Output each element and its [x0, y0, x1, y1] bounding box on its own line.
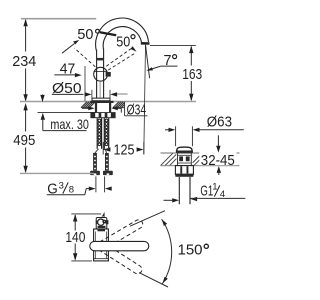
dimension 125 [102, 142, 104, 155]
dimension 163 [190, 47, 192, 66]
svg-text:163: 163 [182, 66, 202, 83]
svg-text:Ø34: Ø34 [127, 102, 147, 119]
cartridge ball joint [94, 67, 108, 81]
dashed lever position right [106, 49, 131, 66]
lever flag marker [102, 213, 105, 217]
150 degree arc [162, 219, 172, 284]
valve lock nut [175, 166, 193, 175]
G 3/8 thread label [95, 176, 97, 192]
mounting nut [90, 112, 115, 118]
faucet spout outer arc [96, 18, 149, 50]
diameter 34 leader arrows [82, 107, 90, 109]
deck bottom edge [82, 107, 91, 109]
label diameter 34 [124, 102, 126, 116]
dashed swivel spout upper [100, 218, 145, 249]
base flange [92, 98, 110, 101]
supply hose left [93, 153, 97, 171]
dashed lever position left [75, 48, 96, 67]
body ring band [96, 58, 103, 61]
svg-text:G: G [47, 181, 58, 198]
dimension diameter 63 [175, 126, 177, 146]
spout mouth [141, 42, 150, 45]
threaded shank below deck [95, 102, 97, 113]
deck hatch left [81, 102, 95, 108]
valve cap [177, 147, 193, 153]
dimension 140 [71, 213, 101, 215]
valve deck bottom line [161, 165, 240, 167]
valve body through deck [178, 153, 192, 166]
dimension 234 [25, 20, 27, 101]
supply hose right [105, 153, 109, 171]
solid spout (top view) [90, 241, 149, 250]
faucet spout inner arc [103, 27, 141, 50]
dimension 495 [25, 105, 27, 172]
body (top view) [94, 229, 109, 261]
hose connectors [95, 149, 99, 153]
svg-text:150: 150 [178, 241, 203, 258]
threaded stud right [104, 118, 108, 149]
dashed swivel spout lower [100, 243, 144, 275]
spout outlet reference line [150, 44, 196, 46]
svg-text:50: 50 [116, 34, 130, 51]
dimension 32-45 [217, 135, 219, 147]
swivel angle legs [130, 211, 165, 227]
countertop deck line [20, 101, 196, 103]
valve tailpiece [178, 177, 180, 204]
svg-text:3: 3 [59, 180, 64, 191]
faucet body [96, 50, 98, 98]
top reference line [21, 18, 96, 20]
svg-text:125: 125 [114, 141, 135, 158]
svg-text:495: 495 [13, 132, 35, 149]
svg-text:4: 4 [220, 189, 225, 200]
svg-text:140: 140 [65, 229, 85, 246]
svg-text:50: 50 [77, 26, 93, 43]
7 degree stream lines [144, 45, 146, 155]
hose end reference line [20, 172, 94, 174]
svg-text:G1: G1 [200, 183, 213, 200]
deck hatch right [113, 102, 124, 108]
lever pin [106, 72, 111, 77]
valve deck top line [161, 152, 200, 154]
knob (lever from top) [96, 218, 107, 230]
svg-text:Ø63: Ø63 [207, 114, 232, 131]
max. 30 dimension [42, 95, 44, 102]
svg-text:32-45: 32-45 [201, 152, 235, 169]
svg-text:max. 30: max. 30 [50, 116, 89, 132]
G 1 1/4 thread label [164, 199, 173, 201]
base plate [90, 101, 113, 103]
valve deck hatch [161, 153, 200, 165]
threaded stud left [97, 118, 101, 149]
svg-text:234: 234 [12, 53, 36, 70]
svg-text:8: 8 [69, 184, 74, 195]
